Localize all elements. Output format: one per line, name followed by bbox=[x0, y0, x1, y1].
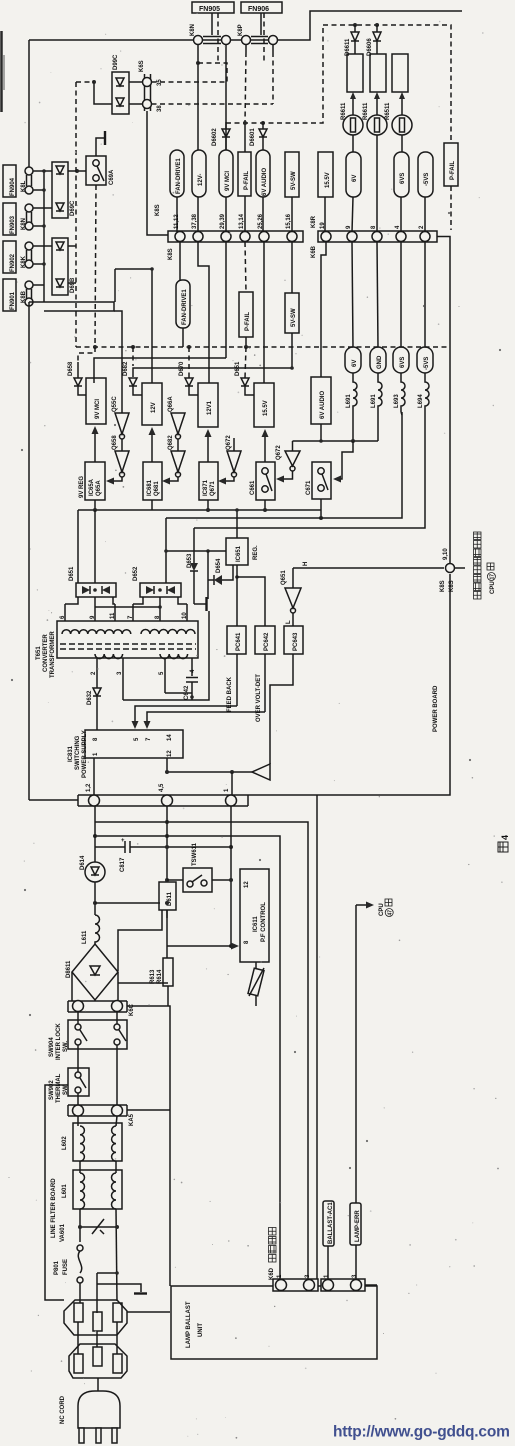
svg-text:6V: 6V bbox=[352, 175, 358, 182]
svg-text:FN901: FN901 bbox=[10, 291, 16, 310]
feedback arrow pin5 bbox=[135, 706, 237, 723]
label fig4 bbox=[498, 835, 510, 852]
svg-text:5: 5 bbox=[134, 737, 140, 741]
svg-text:C671: C671 bbox=[306, 480, 312, 495]
wire K8P pin2 down to dashed net bbox=[272, 45, 274, 53]
resistor R613 R614 bbox=[150, 952, 173, 1006]
inductor L693 bbox=[394, 373, 405, 412]
pill 6VS top bbox=[394, 152, 409, 197]
arrow IC681 to 12V bbox=[151, 433, 153, 462]
capacitor C642 bbox=[184, 678, 198, 701]
bridge D8611 bbox=[66, 944, 118, 1000]
svg-text:8: 8 bbox=[371, 225, 377, 229]
svg-text:IC831: IC831 bbox=[68, 745, 74, 762]
wire FN905 pin to 12V- pill bbox=[197, 45, 199, 151]
box 5V-SW bbox=[285, 152, 299, 197]
svg-text:Q672: Q672 bbox=[276, 445, 282, 460]
svg-text:FUSE: FUSE bbox=[63, 1259, 69, 1275]
svg-text:37,38: 37,38 bbox=[192, 213, 198, 229]
connector FN904 bbox=[3, 165, 33, 197]
box P-FAIL right bbox=[444, 143, 458, 230]
resistor R6611 c bbox=[392, 54, 408, 92]
connector FN901 bbox=[3, 279, 33, 311]
wire pin29 down bbox=[225, 242, 227, 358]
svg-text:P-FAIL: P-FAIL bbox=[245, 312, 251, 331]
svg-text:LAMP BALLAST: LAMP BALLAST bbox=[186, 1301, 192, 1348]
node dot FN905 net bbox=[196, 61, 200, 65]
wire y607 link bbox=[95, 606, 160, 608]
plug pins link bbox=[77, 1322, 79, 1354]
diode block D69B bbox=[52, 238, 76, 295]
svg-text:IC871: IC871 bbox=[203, 479, 209, 496]
wire K6S down to K8S area bbox=[147, 111, 168, 235]
dashed box keystone lamps bbox=[323, 25, 451, 143]
svg-text:11,12: 11,12 bbox=[174, 214, 180, 229]
wire dashed long vertical left bbox=[75, 82, 77, 347]
line A to L693 bbox=[166, 412, 402, 518]
svg-text:4: 4 bbox=[395, 225, 401, 229]
ic IC611 bbox=[240, 869, 269, 962]
connector K8P bbox=[238, 13, 278, 45]
arrow C661 to 15.5V bbox=[264, 435, 266, 462]
svg-text:12V: 12V bbox=[151, 402, 157, 413]
svg-text:2: 2 bbox=[419, 225, 425, 229]
svg-text:UNIT: UNIT bbox=[198, 1323, 204, 1337]
wire D99C lower loop bbox=[94, 82, 112, 104]
svg-text:D6606: D6606 bbox=[367, 38, 373, 56]
svg-text:15.5V: 15.5V bbox=[263, 400, 269, 416]
connector K6C bbox=[68, 1001, 135, 1017]
wire dashed to K6S pin35 bbox=[198, 63, 227, 82]
svg-text:FEED BACK: FEED BACK bbox=[227, 676, 233, 712]
svg-text:PC642: PC642 bbox=[264, 632, 270, 651]
svg-text:1,2: 1,2 bbox=[86, 783, 92, 792]
diode D6606 bbox=[367, 25, 381, 56]
svg-text:L602: L602 bbox=[62, 1136, 68, 1150]
svg-text:Q681: Q681 bbox=[154, 481, 160, 496]
svg-text:BALLAST-AC1: BALLAST-AC1 bbox=[328, 1202, 334, 1244]
ground AC bbox=[97, 1271, 147, 1313]
svg-text:14: 14 bbox=[167, 734, 173, 741]
svg-text:http://www.go-gddq.com: http://www.go-gddq.com bbox=[333, 1424, 510, 1441]
lamp VR a bbox=[343, 92, 363, 135]
diode block D99C bbox=[112, 54, 129, 114]
svg-text:19: 19 bbox=[320, 222, 326, 229]
svg-text:6V AUDIO: 6V AUDIO bbox=[262, 168, 268, 196]
pill FAN-DRIVE1 bbox=[170, 150, 184, 197]
svg-text:PC641: PC641 bbox=[236, 632, 242, 651]
pill 6V AUDIO bbox=[256, 150, 270, 197]
wires FN pins to bus bbox=[33, 170, 52, 172]
drops to bus bbox=[94, 500, 96, 510]
wire K6C right down bbox=[127, 1006, 170, 1286]
diode D658 bbox=[68, 347, 95, 395]
svg-text:D6601: D6601 bbox=[250, 128, 256, 146]
svg-text:SWITCHING: SWITCHING bbox=[75, 735, 81, 770]
wire to Q55C column bbox=[114, 311, 122, 413]
diode D654 bbox=[208, 558, 233, 585]
transistor Q66A bbox=[168, 396, 185, 439]
ground bar transformer bbox=[194, 597, 207, 611]
svg-text:Q672: Q672 bbox=[226, 435, 232, 450]
svg-text:4: 4 bbox=[500, 835, 510, 840]
wires D651 ends to pins bbox=[65, 597, 78, 604]
svg-text:17: 17 bbox=[490, 574, 496, 580]
svg-text:5V-SW: 5V-SW bbox=[291, 171, 297, 190]
wires L601 down bbox=[79, 1209, 81, 1242]
AC plug bbox=[69, 1344, 127, 1378]
diode block D69C bbox=[52, 162, 76, 218]
svg-text:NC CORD: NC CORD bbox=[60, 1395, 66, 1424]
box P-FAIL lower bbox=[239, 292, 253, 347]
svg-text:D651: D651 bbox=[235, 361, 241, 376]
ic IC65A bbox=[79, 462, 105, 500]
switch SW902 bbox=[49, 1068, 89, 1103]
svg-text:3: 3 bbox=[117, 671, 123, 675]
svg-text:FN905: FN905 bbox=[199, 6, 220, 13]
pin wires T651 top bbox=[64, 604, 66, 621]
svg-text:OVER VOLT-DET: OVER VOLT-DET bbox=[256, 674, 262, 722]
wire IC651 to PC641 PC642 bbox=[236, 565, 238, 626]
svg-text:P-FAIL: P-FAIL bbox=[244, 171, 250, 190]
wire D69C to relay bbox=[68, 170, 86, 172]
svg-text:2: 2 bbox=[91, 671, 97, 675]
lamp VR c bbox=[392, 92, 412, 135]
svg-text:Q671: Q671 bbox=[210, 481, 216, 496]
svg-text:-5VS: -5VS bbox=[424, 357, 430, 370]
wire L693 to bus bbox=[401, 412, 402, 415]
arrow IC65A to 9VMCI bbox=[94, 432, 96, 462]
svg-text:7: 7 bbox=[146, 737, 152, 741]
svg-text:POWER BOARD: POWER BOARD bbox=[433, 685, 439, 732]
svg-text:FN902: FN902 bbox=[10, 253, 16, 272]
svg-text:5: 5 bbox=[159, 671, 165, 675]
node dot D99C bbox=[92, 80, 96, 84]
svg-text:13,14: 13,14 bbox=[239, 213, 245, 229]
svg-text:9: 9 bbox=[346, 225, 352, 229]
pill FAN-DRIVE1 lower bbox=[176, 280, 190, 347]
scan edge artifact bbox=[0, 31, 3, 112]
wire CPU47 to lamp err bbox=[355, 905, 357, 1203]
svg-text:IC651: IC651 bbox=[236, 545, 242, 562]
svg-text:8: 8 bbox=[244, 940, 250, 944]
inductor L691 bbox=[346, 373, 357, 412]
wire lamp b to K8R pin8 bbox=[376, 135, 378, 232]
svg-text:P.F CONTROL: P.F CONTROL bbox=[261, 902, 267, 942]
svg-text:1: 1 bbox=[224, 788, 230, 792]
svg-text:12: 12 bbox=[167, 750, 173, 757]
wire dashed D660x net bbox=[226, 25, 323, 123]
svg-text:TSW611: TSW611 bbox=[192, 842, 198, 866]
svg-text:GND: GND bbox=[377, 355, 383, 369]
connector FN905 box bbox=[192, 2, 234, 13]
svg-text:R614: R614 bbox=[157, 969, 163, 984]
wire pin12 node bbox=[166, 758, 168, 772]
connector FN906 box bbox=[241, 2, 282, 13]
svg-text:Q658: Q658 bbox=[112, 435, 118, 450]
svg-text:L694: L694 bbox=[418, 394, 424, 408]
wire 5VSW to regs feed bbox=[94, 358, 226, 383]
wire bridge right to rail bbox=[118, 982, 168, 984]
wire dashed D99C to long dash bbox=[76, 81, 94, 83]
connector K8S bar bbox=[168, 231, 303, 242]
line B to L694 bbox=[194, 412, 425, 528]
svg-text:INTER LOCK: INTER LOCK bbox=[56, 1023, 62, 1060]
wire bus drop D651 center bbox=[94, 510, 96, 583]
wire pin1 down bbox=[93, 758, 95, 795]
svg-text:4: 4 bbox=[190, 669, 196, 673]
secondary winding right bbox=[160, 654, 188, 659]
diode D651a bbox=[235, 347, 254, 395]
svg-text:D632: D632 bbox=[87, 690, 93, 705]
wires D652 ends to pins bbox=[133, 597, 143, 604]
svg-text:9V REG: 9V REG bbox=[79, 476, 85, 498]
transistor Q658 bbox=[106, 435, 129, 485]
node dot P-FAIL net bbox=[243, 121, 247, 125]
svg-text:Q55C: Q55C bbox=[112, 396, 118, 412]
diode D6611 bbox=[345, 25, 359, 56]
diode D653 bbox=[187, 528, 198, 604]
svg-text:FAN-DRIVE1: FAN-DRIVE1 bbox=[176, 158, 182, 194]
wire outlet to ballast bbox=[127, 1311, 170, 1313]
connector K6S bbox=[139, 60, 163, 112]
wire reg common link bbox=[166, 550, 226, 552]
box 5V-SW lower bbox=[285, 293, 299, 333]
wire K8N pin2 down to 9V MCI pill bbox=[225, 45, 227, 151]
wires KA5 to L602 bbox=[77, 1116, 79, 1126]
wire D652 center up bbox=[165, 518, 167, 583]
svg-text:D682: D682 bbox=[123, 361, 129, 376]
svg-text:K8S: K8S bbox=[155, 204, 161, 216]
svg-text:FAN-DRIVE1: FAN-DRIVE1 bbox=[182, 289, 188, 325]
svg-text:12V1: 12V1 bbox=[207, 400, 213, 415]
regulator 12V1 bbox=[198, 383, 218, 427]
relay C69A bbox=[86, 156, 115, 185]
ic IC681 bbox=[143, 462, 162, 500]
svg-text:Q651: Q651 bbox=[281, 570, 287, 585]
svg-text:L693: L693 bbox=[394, 394, 400, 408]
svg-text:KA5: KA5 bbox=[129, 1113, 135, 1126]
wire pin13 dashed to P-FAIL lower bbox=[245, 242, 246, 292]
diode D670 bbox=[179, 347, 198, 395]
wire hot rail below bar bbox=[95, 822, 308, 1280]
svg-text:THERMAL: THERMAL bbox=[56, 1073, 62, 1103]
relay C661 bbox=[250, 462, 275, 500]
svg-text:6V: 6V bbox=[352, 360, 358, 367]
wire K8R bar end to K8S910 bbox=[437, 237, 450, 569]
switch TSW611 bbox=[167, 842, 231, 892]
transistor Q651 bbox=[281, 562, 309, 626]
svg-text:P-FAIL: P-FAIL bbox=[450, 161, 456, 180]
diode D632 bbox=[87, 688, 101, 730]
bus regulators common bbox=[78, 509, 321, 511]
svg-text:25,26: 25,26 bbox=[258, 213, 264, 229]
resistor R6611 b bbox=[370, 54, 386, 92]
pill 6V top bbox=[346, 152, 361, 197]
wire lamp control to K8S bbox=[293, 567, 444, 569]
diode pair D652 bbox=[133, 566, 181, 597]
pill BALLAST-AC1 bbox=[323, 1201, 334, 1279]
connector K6D bbox=[269, 1228, 319, 1292]
svg-text:C817: C817 bbox=[120, 857, 126, 872]
lamp ballast unit box bbox=[171, 1286, 377, 1359]
svg-text:IC611: IC611 bbox=[253, 916, 259, 932]
ic IC871 bbox=[199, 462, 218, 500]
svg-text:D69B: D69B bbox=[70, 277, 76, 293]
wire ballast right bbox=[365, 1284, 377, 1286]
regulator 12V bbox=[142, 383, 162, 425]
connector ballast signals bbox=[321, 1274, 365, 1291]
node dot dashed line bbox=[75, 169, 79, 173]
capacitor C817 bbox=[95, 838, 233, 872]
varistor VA601 bbox=[60, 1219, 119, 1242]
svg-text:R613: R613 bbox=[150, 969, 156, 984]
AC cord body bbox=[60, 1378, 120, 1443]
svg-text:FN906: FN906 bbox=[248, 6, 269, 13]
svg-text:C69A: C69A bbox=[109, 169, 115, 185]
node dot x95 y903 bbox=[93, 901, 97, 905]
inductor L694 bbox=[418, 373, 429, 412]
connector FN902 bbox=[3, 241, 33, 273]
svg-text:1: 1 bbox=[324, 1274, 330, 1278]
svg-text:Q66A: Q66A bbox=[168, 396, 174, 412]
ic IC831 SMPS bbox=[68, 730, 183, 778]
svg-text:R6611: R6611 bbox=[363, 102, 369, 120]
label CJK lamp supply control bbox=[474, 532, 497, 599]
transistor Q672b bbox=[276, 441, 300, 483]
wire to C671 arrow bbox=[338, 441, 353, 479]
relay contact stub bbox=[96, 138, 104, 156]
svg-text:K6D: K6D bbox=[269, 1267, 275, 1280]
svg-text:9,10: 9,10 bbox=[443, 548, 449, 560]
wires K6C to SW904 bbox=[77, 1012, 79, 1024]
pill -5VS lower bbox=[417, 242, 433, 373]
wire pin19 to 6V AUDIO reg bbox=[321, 242, 326, 377]
wire pin15 to 5V-SW lower bbox=[291, 242, 293, 293]
svg-text:9V MCI: 9V MCI bbox=[95, 399, 101, 419]
box 15.5V bbox=[318, 152, 333, 197]
wires L602 to L601 bbox=[79, 1161, 81, 1173]
svg-text:15,16: 15,16 bbox=[286, 213, 292, 229]
wire Q66A-Q682 bbox=[177, 439, 179, 451]
wire pin3 bottom run bbox=[123, 611, 209, 700]
switch SW904 bbox=[49, 1020, 127, 1060]
svg-text:-5VS: -5VS bbox=[424, 173, 430, 186]
secondary pin wires bbox=[96, 658, 98, 688]
wire audio common node bbox=[320, 424, 322, 441]
svg-text:5V-SW: 5V-SW bbox=[291, 308, 297, 327]
wire pin29 to 12V1 reg bbox=[198, 242, 209, 383]
connector KA5 bbox=[68, 1105, 170, 1126]
svg-text:LAMP-ERR: LAMP-ERR bbox=[355, 1210, 361, 1242]
svg-text:CONVERTER: CONVERTER bbox=[43, 634, 49, 672]
svg-text:L: L bbox=[286, 620, 292, 624]
arrow IC871 to 12V1 bbox=[207, 435, 209, 462]
svg-text:K6B: K6B bbox=[311, 245, 317, 258]
svg-text:P801: P801 bbox=[54, 1260, 60, 1275]
regulator 15.5V bbox=[254, 383, 274, 427]
svg-text:R6511: R6511 bbox=[385, 102, 391, 120]
primary winding right bbox=[141, 630, 195, 635]
connector FN903 bbox=[3, 203, 33, 235]
opto PC642 bbox=[255, 626, 275, 722]
transistor Q682 bbox=[162, 435, 185, 485]
node dot 6VAUDIO net bbox=[261, 121, 265, 125]
wire x231 lower column bbox=[230, 806, 232, 946]
posistor bbox=[248, 962, 264, 1006]
svg-text:Q682: Q682 bbox=[168, 435, 174, 450]
svg-text:12: 12 bbox=[244, 881, 250, 888]
connector K8S 9 10 bbox=[440, 548, 465, 592]
wire pin25 to 15.5V reg bbox=[263, 242, 265, 383]
svg-text:6VS: 6VS bbox=[400, 357, 406, 368]
node dots dashed bus bbox=[93, 345, 97, 349]
wire bridge to K6C bbox=[94, 1000, 96, 1001]
connector K8N bbox=[190, 13, 231, 45]
wire Q55C-Q658 bbox=[121, 439, 123, 451]
node dots fan bus bbox=[42, 169, 46, 173]
svg-text:47: 47 bbox=[388, 910, 394, 916]
diode D614 bbox=[80, 806, 105, 915]
box D611 bbox=[95, 882, 176, 971]
svg-text:T651: T651 bbox=[36, 646, 42, 660]
wires SW904 to lower bbox=[77, 1045, 79, 1072]
transistor Q672 bbox=[218, 435, 241, 485]
svg-text:REG.: REG. bbox=[253, 545, 259, 560]
svg-text:D658: D658 bbox=[68, 361, 74, 376]
svg-text:C661: C661 bbox=[250, 480, 256, 495]
node dot D6611 bbox=[353, 23, 357, 27]
wire dashed K8P to P-FAIL net bbox=[245, 52, 246, 123]
fuse P801 bbox=[54, 1245, 83, 1303]
wire D69B out bbox=[68, 245, 76, 247]
svg-text:D99C: D99C bbox=[113, 54, 119, 70]
diode D6602 bbox=[212, 13, 230, 150]
svg-text:K6C: K6C bbox=[129, 1003, 135, 1016]
pill 6VS lower bbox=[393, 242, 409, 373]
pill 6V AUDIO reg bbox=[311, 377, 331, 424]
svg-text:K8P: K8P bbox=[238, 24, 244, 36]
AC outlet bbox=[64, 1300, 127, 1335]
ic IC651 REG bbox=[226, 508, 259, 565]
transformer T651 bbox=[36, 621, 198, 678]
svg-text:K8R: K8R bbox=[311, 215, 317, 228]
connector board bar bbox=[78, 783, 248, 806]
wire loop lower bbox=[114, 269, 116, 302]
pill -5VS top bbox=[418, 152, 433, 197]
wire dashed K6S35 right bbox=[152, 81, 228, 83]
core dashes bbox=[60, 643, 196, 645]
wire rail2 below bar bbox=[95, 836, 280, 1280]
wires pills to K8S bar bbox=[176, 197, 178, 232]
svg-text:K6S: K6S bbox=[139, 60, 145, 72]
pill LAMP-ERR bbox=[350, 1203, 361, 1279]
regulator 9V MCI bbox=[86, 378, 106, 424]
svg-text:D614: D614 bbox=[80, 855, 86, 870]
wire main AC top bbox=[29, 11, 462, 40]
relay C671 bbox=[306, 462, 331, 499]
feedback arrow pin7 bbox=[147, 712, 265, 723]
svg-text:4,5: 4,5 bbox=[159, 783, 165, 792]
svg-text:SW904: SW904 bbox=[49, 1037, 55, 1057]
opto PC643 bbox=[284, 626, 303, 654]
wire FN901 out pair bbox=[29, 302, 114, 311]
svg-text:8: 8 bbox=[93, 737, 99, 741]
svg-text:H: H bbox=[303, 562, 309, 566]
dashed control bus bbox=[76, 346, 448, 348]
wire AC to FN904 bbox=[28, 40, 30, 167]
svg-text:CPU: CPU bbox=[379, 903, 385, 916]
